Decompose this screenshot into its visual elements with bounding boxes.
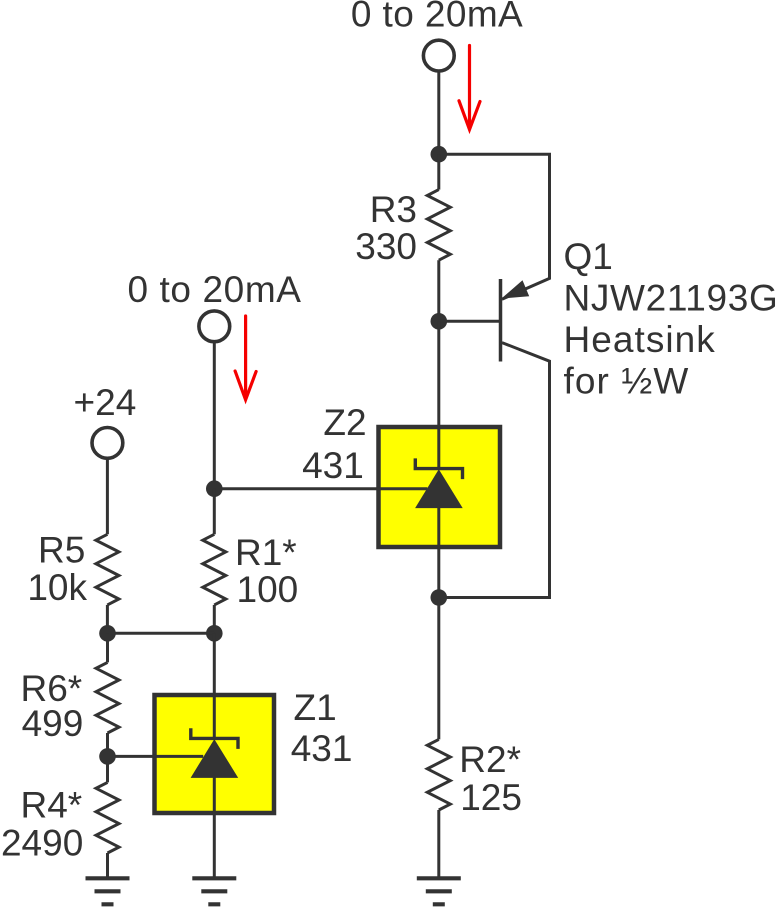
wire: +24 terminal to R5 [106,458,109,534]
wire: top node horizontal and Q1 emitter branch into base bar [439,154,550,299]
wire: divider node down to Z1 cathode [213,633,216,738]
wire: R6 bottom to ref node [106,733,109,756]
wire: ref node to R4 [106,756,109,782]
current arrow right (red) [459,46,480,130]
svg-text:100: 100 [237,569,299,610]
svg-text:431: 431 [302,445,364,486]
transistor Q1 base bar [499,279,503,362]
svg-text:0 to 20mA: 0 to 20mA [127,269,301,310]
ground (middle) [192,878,236,904]
svg-text:Heatsink: Heatsink [564,319,716,360]
resistor R5 [96,534,119,605]
svg-text:+24: +24 [74,382,137,423]
resistor R1 [203,534,226,605]
ground (left) [86,878,130,904]
svg-text:125: 125 [460,777,522,818]
wire: R1 bottom to divider node [213,605,216,633]
wire: middle terminal down to ref node [213,342,216,489]
svg-text:for ½W: for ½W [564,361,690,402]
node: left ref junction dot [99,748,116,765]
node: left divider junction dot [99,625,116,642]
wire: R3 bottom to base node [437,260,440,321]
wire: R2 to ground [437,810,440,878]
wire: Z1 reference from left node [108,755,204,758]
wire: Z2 anode down to lower node [437,508,440,598]
terminal circle +24 [92,428,123,459]
svg-text:R3: R3 [370,189,417,230]
wire: base node to Q1 base bar [439,320,501,323]
wire: lower node to R2 [437,598,440,740]
ground (right) [417,878,461,904]
wire: divider node to R6 [106,633,109,662]
wire: Z1 anode down to ground [213,777,216,879]
resistor R4* [96,782,119,853]
node: middle ref junction dot [206,480,223,497]
resistor R6* [96,662,119,733]
svg-text:0 to 20mA: 0 to 20mA [351,0,523,35]
wire: Z2 reference from mid node [214,487,427,490]
wire: divider horizontal between columns [108,632,215,635]
wire: R5 bottom to divider node [106,605,109,633]
shunt regulator Z1 TL431 symbol [191,728,238,749]
current arrow middle (red) [235,316,256,400]
shunt regulator Z1 yellow box [155,695,275,813]
resistor R3 [427,190,450,261]
svg-text:R2*: R2* [459,739,521,780]
svg-text:431: 431 [291,728,353,769]
svg-text:Z1: Z1 [294,687,337,728]
svg-text:499: 499 [22,703,84,744]
node: mid divider junction dot [206,625,223,642]
wire: R4 to ground [106,853,109,878]
wire: ref node to R1 [213,489,216,535]
resistor R2 [427,739,450,810]
terminal circle middle 0-20mA [199,311,230,342]
svg-text:10k: 10k [27,567,87,608]
node: base junction dot [431,313,448,330]
node: lower junction dot right circuit [431,589,448,606]
node: top junction dot right circuit [431,146,448,163]
wire: Q1 collector diagonal and vertical down to lower node [439,343,550,598]
shunt regulator Z2 yellow box [379,427,501,547]
svg-text:R5: R5 [38,529,85,570]
svg-text:R4*: R4* [20,785,82,826]
svg-text:Z2: Z2 [323,402,366,443]
shunt regulator Z2 TL431 symbol [415,458,462,479]
wire: base node down to Z2 cathode [437,321,440,468]
Q1 emitter arrowhead (PNP, pointing into bar) [501,280,529,298]
svg-text:R1*: R1* [235,532,297,573]
svg-text:330: 330 [355,226,417,267]
svg-text:2490: 2490 [1,823,83,864]
svg-text:Q1: Q1 [564,236,613,277]
svg-text:NJW21193G: NJW21193G [564,278,777,319]
wire: right input vertical from terminal to top node [437,71,440,154]
wire: node to R3 top [437,154,440,189]
terminal circle right 0-20mA [423,40,454,71]
